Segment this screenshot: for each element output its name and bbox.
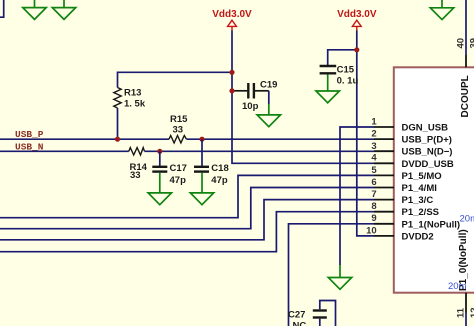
svg-text:C17: C17: [170, 163, 187, 174]
pin 1 DGN_USB: [371, 116, 448, 133]
pin 9 P1_1(NoPull): [371, 213, 460, 230]
svg-text:C19: C19: [260, 80, 277, 91]
svg-text:20m: 20m: [460, 214, 474, 225]
pin 40 DCOUPL (top edge): [456, 0, 472, 118]
svg-text:USB_N(D−): USB_N(D−): [402, 147, 453, 158]
svg-text:12: 12: [469, 307, 474, 318]
svg-text:10p: 10p: [242, 101, 259, 112]
svg-text:C27: C27: [288, 310, 305, 321]
svg-text:P1_3/C: P1_3/C: [402, 195, 434, 206]
pin 2 USB_P(D+): [371, 129, 452, 146]
svg-text:6: 6: [371, 177, 376, 188]
svg-text:33: 33: [130, 170, 141, 181]
wire R13 top to rail 1: [118, 71, 233, 73]
pin 5 P1_5/MO: [371, 165, 441, 182]
svg-text:40: 40: [456, 38, 467, 49]
svg-text:Vdd3.0V: Vdd3.0V: [212, 9, 252, 20]
wire C15 tap from rail 2: [328, 50, 357, 65]
svg-text:8: 8: [371, 201, 376, 212]
wire pin 8 P1_2/SS staircase: [0, 212, 374, 252]
wire C18 to ground: [201, 173, 203, 193]
ground (top-right): [430, 0, 453, 20]
resistor R15 33: [169, 114, 188, 143]
junction R15/C18 riser: [199, 137, 204, 142]
svg-text:C15: C15: [337, 65, 355, 76]
wire C19 to ground: [268, 91, 270, 104]
pin 6 P1_4/MI: [371, 177, 436, 194]
resistor R13 1.5k: [114, 72, 146, 140]
svg-text:4: 4: [371, 153, 377, 164]
svg-text:NC: NC: [293, 321, 307, 326]
svg-text:DCOUPL: DCOUPL: [460, 75, 471, 117]
wire Vdd rail 1 down to pin 4 (DVDD_USB): [232, 31, 374, 164]
junction R14/C17 riser: [157, 149, 162, 154]
svg-text:1. 5k: 1. 5k: [124, 99, 146, 110]
power port Vdd3.0V (left rail): [212, 9, 252, 31]
pin 8 P1_2/SS: [371, 201, 439, 218]
ground (top-left #2): [52, 0, 75, 19]
wire Vdd rail 2 down to pin 10 (DVDD2): [357, 31, 374, 236]
svg-text:P1_5/MO: P1_5/MO: [402, 171, 442, 182]
pin 11 P1_0(NoPull) (bottom edge): [456, 229, 470, 326]
wire pin 5 P1_5/MO staircase: [0, 175, 374, 217]
wire riser to C18: [201, 139, 203, 166]
svg-text:7: 7: [371, 189, 376, 200]
svg-text:USB_P(D+): USB_P(D+): [402, 135, 452, 146]
svg-text:Vdd3.0V: Vdd3.0V: [337, 9, 377, 20]
power port Vdd3.0V (right rail): [337, 9, 377, 31]
capacitor C15 0.1u: [320, 65, 359, 87]
svg-text:DVDD_USB: DVDD_USB: [402, 159, 454, 170]
svg-text:0. 1u: 0. 1u: [337, 75, 359, 86]
wire C15 to ground: [327, 74, 329, 91]
pin 7 P1_3/C: [371, 189, 433, 206]
ground (C18): [190, 193, 213, 205]
svg-text:P1_1(NoPull): P1_1(NoPull): [402, 219, 461, 230]
pin 4 DVDD_USB: [371, 153, 453, 170]
ground (C17): [148, 193, 171, 205]
capacitor C19 10p: [232, 80, 277, 113]
svg-text:C18: C18: [211, 163, 228, 174]
svg-text:39: 39: [469, 38, 474, 49]
pin 10 DVDD2: [366, 225, 434, 242]
ground (top-left #1): [23, 0, 46, 19]
wire top-left corner fragment: [0, 0, 4, 17]
svg-text:10: 10: [366, 225, 377, 236]
capacitor C17 47p: [152, 163, 187, 186]
resistor R14 33: [129, 148, 148, 181]
junction rail1/C19: [229, 88, 234, 93]
ground (DGN_USB): [328, 265, 351, 289]
junction rail2/C15: [354, 47, 359, 52]
capacitor C27 NC: [288, 301, 336, 326]
svg-text:DGN_USB: DGN_USB: [402, 123, 449, 134]
wire riser to C17: [159, 151, 161, 166]
wire pin 7 P1_3/C staircase: [0, 200, 374, 240]
junction R13/USB_P: [115, 137, 120, 142]
ground (C19): [257, 104, 280, 127]
svg-text:11: 11: [456, 307, 467, 318]
svg-text:1: 1: [371, 116, 377, 127]
wire C17 to ground: [159, 173, 161, 193]
svg-text:33: 33: [173, 124, 184, 135]
svg-text:R13: R13: [124, 88, 141, 99]
svg-text:20m: 20m: [448, 281, 467, 292]
svg-text:9: 9: [371, 213, 376, 224]
svg-text:47p: 47p: [170, 175, 187, 186]
svg-text:47p: 47p: [211, 175, 228, 186]
svg-text:P1_2/SS: P1_2/SS: [402, 207, 440, 218]
svg-text:DVDD2: DVDD2: [402, 231, 434, 242]
capacitor C18 47p: [194, 163, 229, 186]
wire pin 6 P1_4/MI staircase: [0, 188, 374, 229]
svg-text:3: 3: [371, 141, 376, 152]
wire USB_N (pin 3): [0, 150, 129, 152]
ground (C15): [316, 91, 339, 103]
svg-text:2: 2: [371, 129, 376, 140]
junction rail1/R13: [229, 70, 234, 75]
IC component body U?: [394, 67, 474, 292]
svg-text:P1_4/MI: P1_4/MI: [402, 183, 437, 194]
wire pin 1 DGN_USB to ground: [340, 127, 374, 265]
svg-text:5: 5: [371, 165, 377, 176]
wire USB_P (pin 2): [0, 138, 169, 140]
pin 3 USB_N(D-): [371, 141, 452, 158]
wire pin 9 P1_1 down to bottom edge: [289, 224, 375, 326]
